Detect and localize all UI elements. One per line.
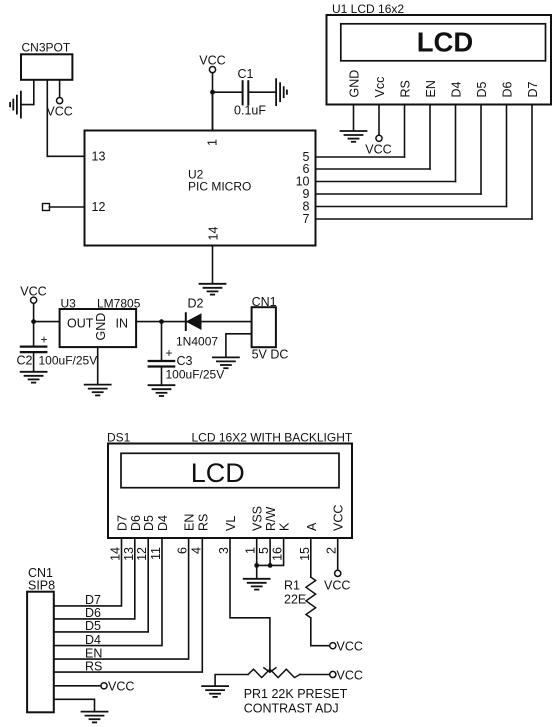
svg-text:D6: D6: [129, 515, 143, 531]
svg-text:CN1: CN1: [252, 295, 277, 309]
svg-text:GND: GND: [348, 70, 362, 98]
svg-text:U1 LCD 16x2: U1 LCD 16x2: [332, 2, 404, 16]
svg-text:6: 6: [176, 547, 190, 554]
svg-text:OUT: OUT: [67, 317, 94, 331]
svg-text:12: 12: [92, 200, 106, 214]
svg-text:VCC: VCC: [199, 54, 225, 68]
svg-text:5: 5: [257, 547, 271, 554]
svg-text:D4: D4: [156, 515, 170, 531]
svg-text:D6: D6: [501, 81, 515, 97]
svg-text:LCD: LCD: [191, 458, 245, 488]
svg-text:100uF/25V: 100uF/25V: [166, 368, 225, 382]
svg-text:16: 16: [271, 547, 285, 561]
svg-text:Vcc: Vcc: [373, 77, 387, 98]
svg-text:D2: D2: [188, 297, 204, 311]
svg-text:CN3POT: CN3POT: [22, 41, 71, 55]
svg-text:VCC: VCC: [337, 668, 363, 682]
svg-text:C1: C1: [238, 67, 254, 81]
svg-text:U3: U3: [61, 297, 77, 311]
svg-text:1N4007: 1N4007: [176, 335, 218, 349]
svg-text:14: 14: [207, 227, 221, 241]
svg-text:VL: VL: [224, 516, 238, 531]
svg-text:D6: D6: [85, 606, 101, 620]
svg-text:D7: D7: [526, 81, 540, 97]
svg-text:14: 14: [109, 547, 123, 561]
svg-text:D7: D7: [116, 515, 130, 531]
svg-text:VCC: VCC: [337, 639, 363, 653]
svg-text:0.1uF: 0.1uF: [234, 104, 266, 118]
svg-text:4: 4: [189, 547, 203, 554]
svg-text:VCC: VCC: [324, 579, 350, 593]
svg-text:K: K: [278, 522, 292, 531]
svg-text:C2: C2: [17, 354, 33, 368]
svg-text:D5: D5: [85, 619, 101, 633]
svg-text:15: 15: [298, 547, 312, 561]
svg-text:IN: IN: [116, 317, 129, 331]
svg-text:VSS: VSS: [251, 506, 265, 531]
svg-text:CONTRAST ADJ: CONTRAST ADJ: [244, 702, 339, 716]
svg-text:22E: 22E: [284, 593, 306, 607]
svg-text:D4: D4: [450, 81, 464, 97]
svg-text:7: 7: [303, 212, 310, 226]
svg-text:PIC MICRO: PIC MICRO: [188, 180, 251, 194]
svg-text:LCD 16X2 WITH BACKLIGHT: LCD 16X2 WITH BACKLIGHT: [192, 431, 353, 445]
svg-text:RS: RS: [196, 514, 210, 531]
svg-text:C3: C3: [177, 354, 193, 368]
svg-text:1: 1: [206, 139, 220, 146]
svg-text:D4: D4: [85, 633, 101, 647]
svg-text:D7: D7: [85, 593, 101, 607]
svg-text:12: 12: [135, 547, 149, 561]
svg-text:D5: D5: [142, 515, 156, 531]
svg-text:+: +: [41, 333, 48, 347]
svg-text:LCD: LCD: [417, 27, 474, 58]
svg-text:GND: GND: [94, 313, 108, 341]
svg-text:LM7805: LM7805: [97, 297, 141, 311]
svg-text:1: 1: [244, 547, 258, 554]
svg-text:11: 11: [149, 547, 163, 560]
svg-text:DS1: DS1: [107, 431, 131, 445]
svg-text:EN: EN: [424, 80, 438, 97]
svg-text:100uF/25V: 100uF/25V: [39, 354, 98, 368]
svg-text:PR1 22K PRESET: PR1 22K PRESET: [244, 687, 348, 701]
svg-text:EN: EN: [85, 646, 102, 660]
svg-text:13: 13: [92, 149, 106, 163]
svg-text:A: A: [305, 522, 319, 531]
svg-text:VCC: VCC: [108, 679, 134, 693]
svg-text:RS: RS: [399, 80, 413, 97]
svg-text:VCC: VCC: [365, 143, 391, 157]
svg-text:VCC: VCC: [46, 105, 72, 119]
svg-text:5V DC: 5V DC: [252, 348, 289, 362]
svg-text:3: 3: [217, 547, 231, 554]
svg-text:VCC: VCC: [332, 505, 346, 531]
svg-text:EN: EN: [183, 514, 197, 531]
svg-text:13: 13: [122, 547, 136, 561]
svg-text:D5: D5: [475, 81, 489, 97]
svg-text:R1: R1: [284, 579, 300, 593]
svg-text:SIP8: SIP8: [28, 579, 55, 593]
svg-text:+: +: [166, 346, 173, 360]
svg-text:R/W: R/W: [264, 507, 278, 532]
svg-text:RS: RS: [85, 659, 102, 673]
svg-text:2: 2: [325, 547, 339, 554]
